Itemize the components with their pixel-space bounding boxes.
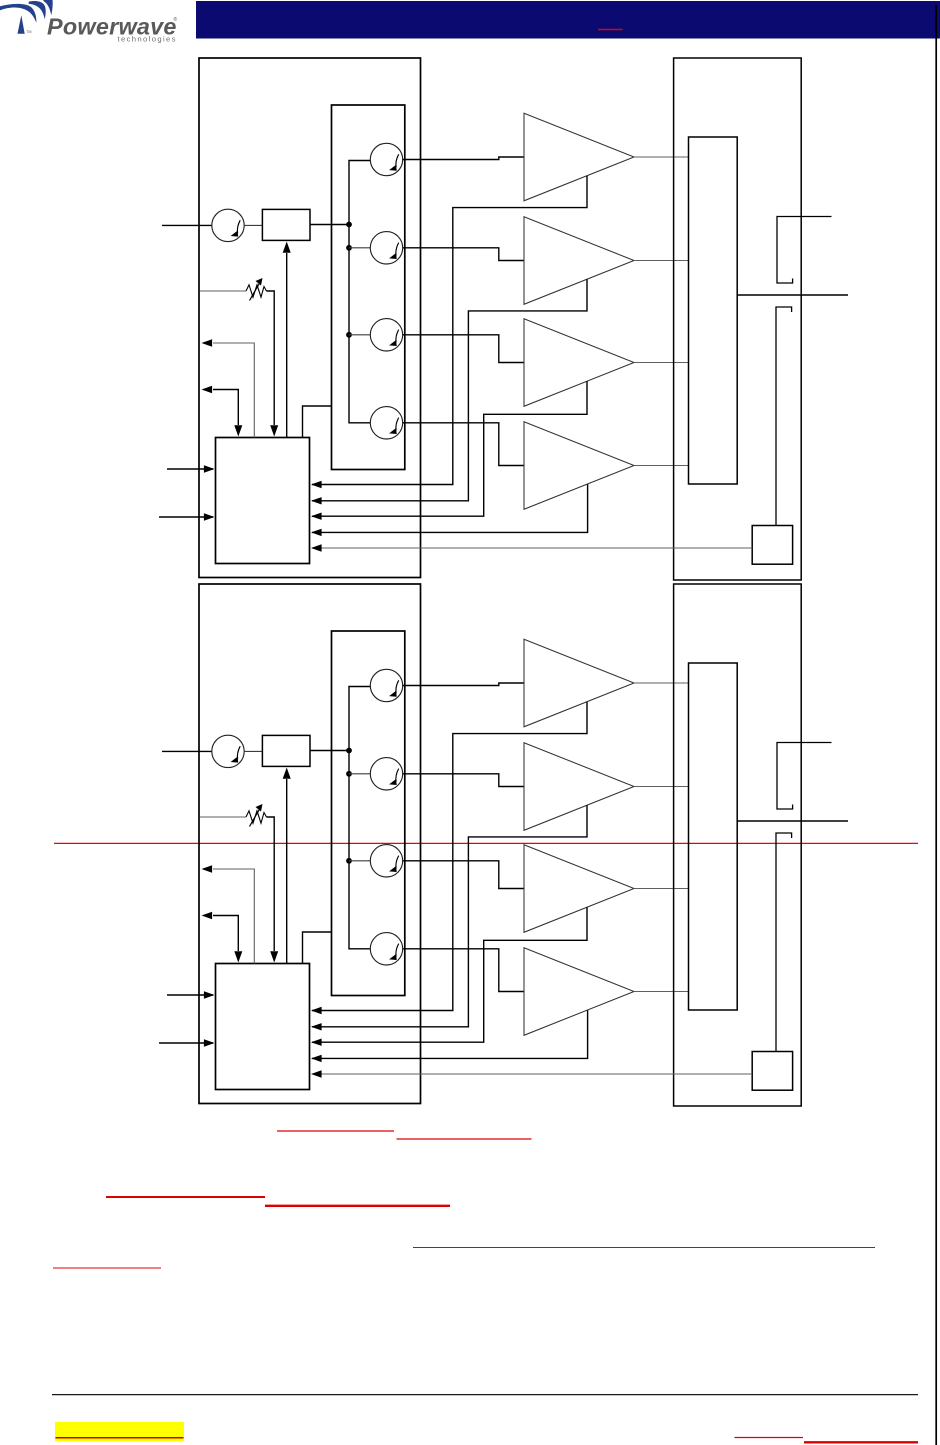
red underline link C: [413, 1247, 875, 1249]
footer right red link 2: [804, 1441, 918, 1443]
divider circulator CR5 (channel A): [370, 407, 402, 439]
divider circulator CR4 (channel A): [370, 319, 402, 351]
node + tap wire to CR4 (channel B): [346, 858, 352, 864]
wire CR5 to amplifier PA4 (channel B): [403, 949, 524, 992]
divider circulator CR3 (channel A): [370, 232, 402, 264]
right page border line: [935, 5, 937, 1445]
control wire to attenuator (channel A): [286, 253, 288, 438]
control wire to divider assembly (channel B): [303, 932, 333, 964]
control input wire 1 (channel B): [167, 994, 213, 996]
feedback wire PA1 to control unit (channel A): [312, 176, 587, 485]
control input wire 2 (channel B): [159, 1042, 213, 1044]
power amplifier PA3 (channel B): [524, 845, 634, 933]
wire CR1 to attenuator (channel B): [244, 750, 262, 752]
header navy title bar: [196, 1, 940, 39]
divider circulator CR2 (channel A): [370, 143, 402, 175]
variable attenuator box AT1 (channel A): [262, 209, 310, 240]
Powerwave logo swoosh arc 2 (middle): [29, 1, 46, 19]
alarm output wire A (channel B): [213, 869, 254, 964]
detector feedback wire to control unit (channel B): [312, 1073, 752, 1075]
node + tap wire to CR3 (channel A): [346, 245, 352, 251]
control unit box (channel A): [216, 438, 310, 564]
wire CR5 to amplifier PA4 (channel A): [403, 423, 524, 466]
divider circulator CR3 (channel B): [370, 758, 402, 790]
control wire to attenuator (channel B): [286, 779, 288, 964]
divider circulator CR4 (channel B): [370, 845, 402, 877]
RF input wire (channel A): [162, 224, 212, 226]
node: divider input junction (channel B): [346, 748, 352, 754]
feedback wire PA4 to control unit (channel B): [312, 1010, 588, 1058]
PA1 output wire (channel B): [634, 682, 689, 684]
footer right red link 1: [735, 1437, 804, 1439]
wire CR2 to amplifier PA1 (channel B): [403, 683, 524, 686]
red underline link B2: [265, 1205, 450, 1207]
red underline link D: [53, 1267, 161, 1269]
sense line with potentiometer R1 (channel B): [200, 816, 246, 818]
combiner network rectangle (channel A): [689, 137, 738, 484]
outer enclosure box (channel B): [199, 584, 421, 1104]
alarm output wire B (channel A): [213, 390, 238, 426]
power detector box (channel A): [752, 526, 792, 565]
divider circulator CR5 (channel B): [370, 933, 402, 965]
main RF output wire port 2 (channel B): [737, 820, 848, 822]
PA4 output wire (channel B): [634, 991, 689, 993]
Powerwave logo swoosh arc 3 (right): [43, 0, 52, 15]
reflected-power coupler wire to detector (channel B): [776, 833, 792, 1052]
control unit box (channel B): [216, 964, 310, 1090]
power amplifier PA4 (channel B): [524, 948, 634, 1036]
sense line with potentiometer R1 (channel A): [200, 290, 246, 292]
power amplifier PA1 (channel A): [524, 113, 634, 201]
wire CR3 to amplifier PA2 (channel A): [403, 248, 524, 261]
PA3 output wire (channel A): [634, 362, 689, 364]
footer horizontal rule: [52, 1394, 918, 1396]
feedback wire PA3 to control unit (channel B): [312, 907, 587, 1042]
combiner assembly box (channel A): [674, 58, 802, 580]
power amplifier PA2 (channel B): [524, 743, 634, 831]
power amplifier PA1 (channel B): [524, 639, 634, 727]
wire CR3 to amplifier PA2 (channel B): [403, 774, 524, 787]
feedback wire PA3 to control unit (channel A): [312, 381, 587, 516]
PA3 output wire (channel B): [634, 888, 689, 890]
wire attenuator to divider input (channel B): [310, 750, 349, 752]
node + tap wire to CR4 (channel A): [346, 332, 352, 338]
wire potentiometer to control unit (channel A): [267, 291, 275, 425]
power divider assembly box (channel B): [332, 631, 405, 996]
feedback wire PA1 to control unit (channel B): [312, 702, 587, 1011]
main RF output wire port 2 (channel A): [737, 294, 848, 296]
feedback wire PA2 to control unit (channel B): [312, 805, 587, 1027]
node + tap wire to CR3 (channel B): [346, 771, 352, 777]
forward-power coupler and output port 1 (channel A): [777, 217, 832, 284]
PA4 output wire (channel A): [634, 465, 689, 467]
Powerwave logo triangle mast: [18, 15, 25, 34]
wire CR4 to amplifier PA3 (channel B): [403, 861, 524, 889]
divider circulator CR2 (channel B): [370, 669, 402, 701]
PA2 output wire (channel A): [634, 260, 689, 262]
wire CR1 to attenuator (channel A): [244, 224, 262, 226]
Powerwave logo swoosh arc 1 (large): [0, 4, 36, 23]
red underline link B1: [106, 1196, 265, 1198]
horizontal red revision rule: [54, 842, 918, 844]
control wire to divider assembly (channel A): [303, 406, 333, 438]
input circulator CR1 (channel B): [212, 735, 244, 767]
svg-text:®: ®: [174, 16, 178, 23]
power amplifier PA4 (channel A): [524, 422, 634, 510]
wire potentiometer to control unit (channel B): [267, 817, 275, 951]
alarm output wire B (channel B): [213, 916, 238, 952]
wire attenuator to divider input (channel A): [310, 224, 349, 226]
red underline link A1: [277, 1130, 394, 1132]
divider bus wire (channel A): [349, 161, 371, 423]
alarm output wire A (channel A): [213, 343, 254, 438]
variable attenuator box AT1 (channel B): [262, 735, 310, 766]
control input wire 2 (channel A): [159, 516, 213, 518]
outer enclosure box (channel A): [199, 58, 421, 578]
header red underline mark (title link): [598, 29, 623, 31]
forward-power coupler and output port 1 (channel B): [777, 743, 832, 810]
combiner network rectangle (channel B): [689, 663, 738, 1010]
combiner assembly box (channel B): [674, 584, 802, 1106]
feedback wire PA4 to control unit (channel A): [312, 484, 588, 532]
reflected-power coupler wire to detector (channel A): [776, 307, 792, 526]
power divider assembly box (channel A): [332, 105, 405, 470]
node: divider input junction (channel A): [346, 222, 352, 228]
PA2 output wire (channel B): [634, 786, 689, 788]
PA1 output wire (channel A): [634, 156, 689, 158]
wire CR2 to amplifier PA1 (channel A): [403, 157, 524, 160]
footer yellow highlighted link: [55, 1422, 184, 1441]
input circulator CR1 (channel A): [212, 209, 244, 241]
control input wire 1 (channel A): [167, 468, 213, 470]
svg-text:TM: TM: [26, 30, 31, 34]
red underline link A2: [397, 1138, 532, 1140]
power amplifier PA2 (channel A): [524, 217, 634, 305]
power amplifier PA3 (channel A): [524, 319, 634, 407]
detector feedback wire to control unit (channel A): [312, 547, 752, 549]
svg-text:technologies: technologies: [118, 34, 177, 43]
wire CR4 to amplifier PA3 (channel A): [403, 335, 524, 363]
feedback wire PA2 to control unit (channel A): [312, 279, 587, 501]
power detector box (channel B): [752, 1052, 792, 1091]
divider bus wire (channel B): [349, 687, 371, 949]
RF input wire (channel B): [162, 750, 212, 752]
